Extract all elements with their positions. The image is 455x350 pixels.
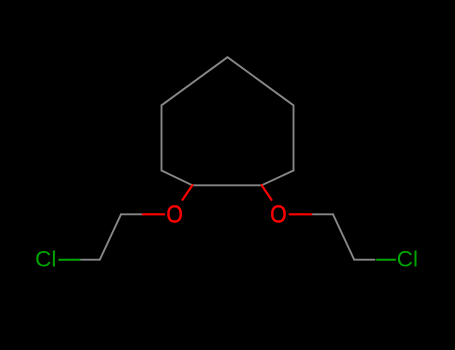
wire right O diagonal bond	[262, 185, 272, 200]
wire right O horizontal red half	[290, 213, 312, 215]
wire gray half of right O horizontal bond	[311, 213, 333, 215]
wire left Cl bond green half	[59, 259, 79, 261]
wire ring upper-left slant	[162, 57, 228, 105]
atom O right	[272, 206, 284, 221]
wire gray half of right Cl bond	[354, 259, 374, 261]
wire gray half of left O horizontal bond	[121, 213, 143, 215]
wire ring left vertical	[161, 105, 163, 170]
wire right Cl bond green half	[377, 259, 395, 261]
benzene ring	[162, 57, 294, 185]
green bonds	[59, 259, 395, 261]
wire ring lower-left slant	[162, 171, 193, 186]
wire left CH2-CH2 bond	[100, 214, 121, 259]
wire left O diagonal bond	[183, 185, 193, 200]
wire ring right vertical	[293, 105, 295, 170]
svg-text:Cl: Cl	[35, 246, 56, 271]
wire left O horizontal red half	[143, 213, 165, 215]
wire ring bottom bond	[192, 184, 261, 186]
svg-text:Cl: Cl	[397, 246, 418, 271]
atom O left	[169, 206, 181, 221]
wire ring upper-right slant	[228, 57, 294, 105]
left chain gray bonds	[80, 214, 143, 259]
red bonds	[143, 185, 312, 214]
wire ring lower-right slant	[262, 171, 294, 186]
right chain gray bonds	[311, 214, 374, 259]
wire gray half of left Cl bond	[80, 259, 100, 261]
wire right CH2-CH2 bond	[333, 214, 354, 259]
